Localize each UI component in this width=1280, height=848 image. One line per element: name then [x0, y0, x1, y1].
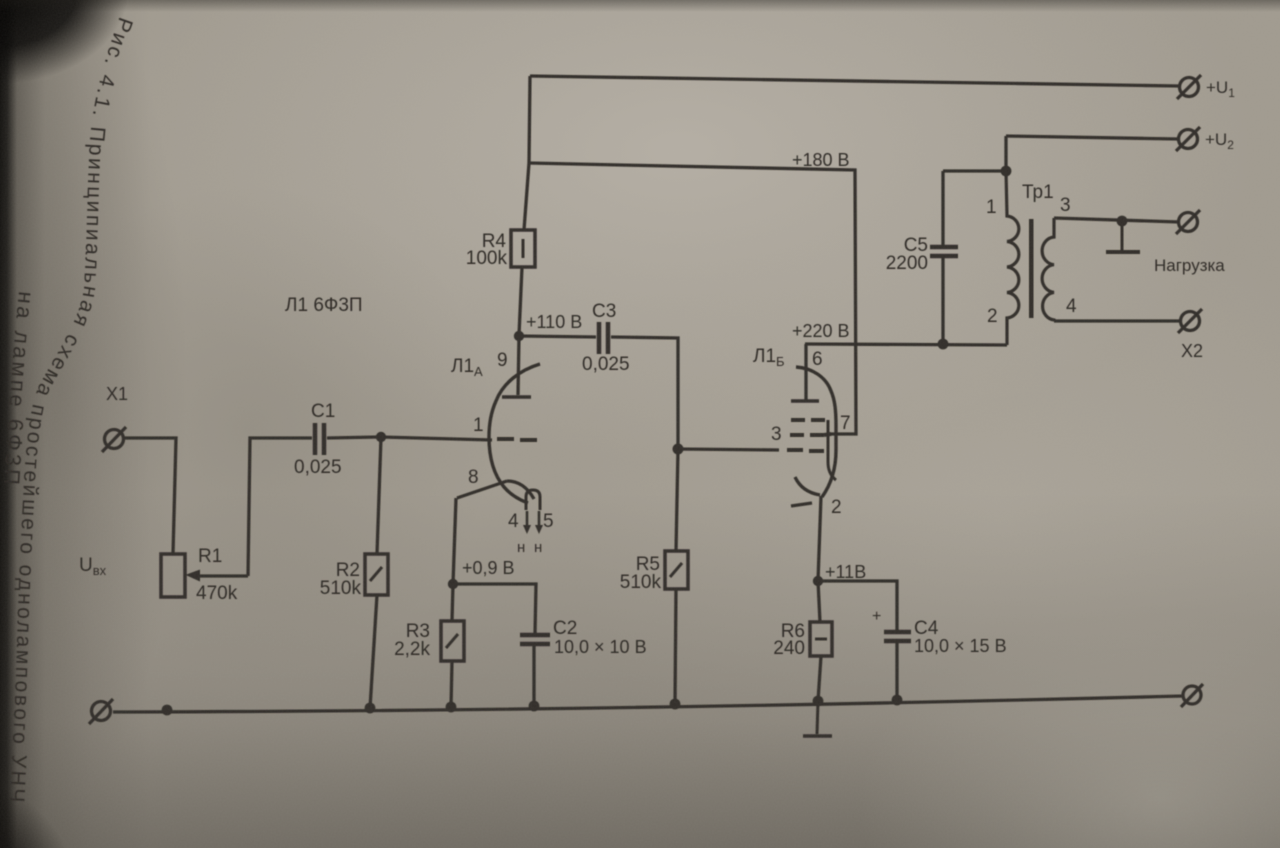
transformer Tp1 primary winding [1006, 171, 1019, 345]
wire R2 top lead [377, 437, 381, 554]
wire R5 top lead [676, 449, 678, 551]
wire +U2 rail [1006, 136, 1178, 139]
pentode Л1Б anode bar [791, 399, 819, 403]
node +11V junction [813, 576, 823, 586]
node rail R2 [365, 703, 376, 714]
terminal +U2 [1176, 127, 1200, 151]
wire +U1 top rail [530, 76, 1179, 86]
heater pin 4 arrow [523, 511, 531, 534]
wire grid feed Л1А [381, 437, 492, 440]
suppressor to cathode internal tie [828, 420, 836, 480]
capacitor C1 [315, 423, 324, 455]
node load ground junction [1117, 216, 1128, 227]
wire R4 bottom lead [519, 267, 522, 335]
wire R3 bottom lead [451, 661, 452, 707]
terminal load top [1176, 210, 1200, 234]
node rail R3 [446, 702, 457, 713]
resistor R3 [441, 621, 464, 661]
potentiometer R1 [161, 554, 248, 597]
wire grid feed Л1Б [678, 449, 779, 450]
triode Л1А anode lead (pin 9) [518, 336, 519, 395]
grid dashes Л1Б control grid (pin 3) [787, 450, 824, 451]
wire C5 top lead [941, 171, 944, 245]
node C3/R5/grid junction [673, 444, 684, 455]
triode Л1А cathode [457, 481, 534, 499]
wire +0.9V node to C2 [453, 584, 536, 634]
capacitor C5 [930, 247, 958, 256]
wire R6 top lead [818, 581, 820, 622]
transformer Tp1 secondary winding [1042, 218, 1054, 321]
resistor R4 [511, 230, 535, 267]
wire cathode pin 8 to +0.9V node [453, 498, 456, 584]
wire +11V node to C4 [818, 581, 897, 630]
node +110V anode junction [514, 331, 524, 341]
wire C4 bottom lead [895, 643, 898, 700]
ground symbol chassis [803, 701, 832, 736]
wire ground rail [113, 696, 1183, 712]
capacitor C4 [884, 632, 911, 641]
wire C2 bottom lead [532, 646, 535, 706]
wire +220V anode rail [805, 344, 1007, 345]
wire R4 top lead [524, 163, 529, 230]
node rail R6 [813, 696, 824, 707]
ground symbol load [1106, 221, 1140, 252]
wire R6 bottom lead [818, 656, 821, 701]
heater pin 5 arrow [535, 511, 543, 534]
wire +180V branch to screen grid feed [529, 163, 856, 434]
node rail R1 [162, 705, 173, 716]
terminal ground left [89, 699, 113, 724]
capacitor C3 [599, 322, 608, 354]
wire R3 top lead [452, 584, 453, 621]
node rail R5 [670, 699, 681, 710]
heater filament Л1А [526, 490, 540, 510]
caption text [0, 14, 137, 805]
wire R2 bottom lead [370, 595, 377, 708]
resistor R6 [810, 622, 832, 656]
wire C3 to R5 column [611, 337, 678, 449]
wire C1 to grid node [327, 437, 378, 438]
terminal X1 input [102, 427, 126, 452]
wire node to C3 [519, 336, 596, 337]
node C1/R2/grid junction [376, 432, 386, 442]
wire cathode pin 2 to +11V node [818, 496, 821, 581]
terminal X2 [1178, 309, 1202, 333]
wire C5 to primary top [943, 169, 1006, 172]
pentode Л1Б anode lead (pin 6) [804, 344, 807, 400]
node rail C2 [529, 701, 540, 712]
wire from top rail down to +180V branch [529, 76, 530, 163]
grid dashes Л1Б suppressor grid [791, 418, 825, 422]
node rail C4 [892, 695, 903, 706]
grid dashes Л1А (pin 1) [497, 439, 537, 440]
pentode Л1Б envelope [796, 367, 836, 497]
wire X1 to R1 [124, 438, 176, 554]
wire C5 bottom lead [941, 258, 944, 344]
triode Л1А envelope [489, 364, 540, 503]
wire secondary top to load terminal [1054, 218, 1179, 222]
junction screen grid to feed [824, 434, 831, 435]
wire +U2 down to transformer [1004, 136, 1007, 171]
capacitor C2 [520, 635, 550, 644]
triode Л1А anode bar [502, 395, 531, 399]
terminal ground right [1181, 684, 1203, 707]
node +0.9V junction [448, 579, 458, 589]
node transformer primary top [1001, 166, 1012, 177]
wire R5 bottom lead [675, 589, 676, 704]
wire secondary bottom to X2 [1054, 319, 1181, 322]
resistor R5 [665, 551, 688, 589]
wire R1 wiper to C1 [248, 438, 312, 576]
transformer Tp1 core [1029, 219, 1034, 318]
terminal +U1 [1177, 75, 1201, 99]
resistor R2 [365, 554, 388, 595]
node C5 bottom junction [938, 339, 949, 350]
grid dashes Л1Б screen grid (pin 7) [790, 433, 824, 437]
pentode Л1Б cathode [791, 477, 820, 506]
